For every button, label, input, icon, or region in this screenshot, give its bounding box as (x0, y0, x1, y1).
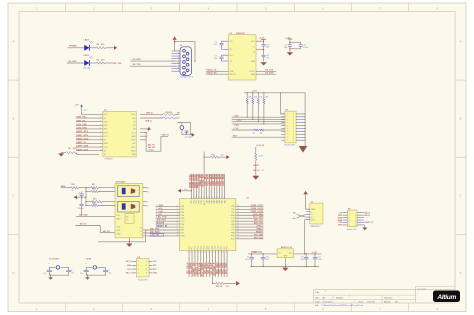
svg-text:VCC: VCC (231, 218, 236, 220)
wire long vertical to reset resistor (204, 152, 205, 174)
svg-text:1: 1 (287, 125, 288, 127)
svg-text:4: 4 (349, 220, 350, 222)
svg-text:20: 20 (71, 190, 73, 192)
svg-text:7: 7 (100, 135, 101, 137)
svg-text:VCC: VCC (181, 221, 186, 223)
svg-text:R7: R7 (253, 133, 255, 135)
svg-text:LED_TXD: LED_TXD (157, 217, 167, 219)
resistor R4 (66, 147, 77, 154)
capacitor C10 (261, 253, 269, 266)
svg-text:T1IN: T1IN (229, 71, 234, 73)
capacitor C8 (78, 197, 85, 210)
svg-text:11: 11 (100, 149, 102, 151)
svg-text:CH340G: CH340G (105, 158, 113, 160)
wire power gnd rail (251, 266, 319, 267)
svg-text:AMS1117-3.3: AMS1117-3.3 (281, 246, 292, 249)
svg-text:DTR: DTR (104, 132, 108, 134)
wire RP3 to bus row3 (258, 104, 259, 122)
net label RXLED (68, 61, 76, 63)
svg-text:2014/12/25: 2014/12/25 (322, 301, 333, 303)
svg-text:30: 30 (237, 220, 239, 222)
wire row1 into U4 with R10 R11 (61, 184, 115, 192)
svg-text:22p: 22p (43, 273, 46, 275)
svg-text:I_SDA: I_SDA (233, 114, 240, 117)
wire net UD- with R6 (140, 118, 163, 123)
title block revision info column (417, 289, 426, 300)
ground power supply (282, 268, 288, 271)
svg-text:USB_D-: USB_D- (145, 121, 152, 123)
svg-text:PC5: PC5 (203, 246, 205, 250)
svg-text:5: 5 (138, 269, 139, 271)
power port +3.3V at U1 (259, 37, 266, 42)
svg-text:+3.3V_M: +3.3V_M (256, 145, 264, 147)
svg-text:3232_RXD: 3232_RXD (76, 128, 87, 130)
LED D2 (84, 39, 93, 50)
svg-text:28: 28 (227, 251, 229, 253)
svg-text:22p: 22p (108, 273, 111, 275)
svg-text:NC2: NC2 (132, 147, 136, 149)
svg-text:1: 1 (287, 134, 288, 136)
svg-text:XT2: XT2 (231, 227, 234, 229)
svg-text:GND: GND (127, 265, 132, 267)
svg-text:R12: R12 (92, 189, 95, 191)
svg-text:VCC: VCC (84, 110, 89, 112)
resistor RP4 (263, 92, 269, 104)
connector J1 USB body (310, 201, 323, 228)
svg-text:USB MICRO: USB MICRO (310, 226, 321, 228)
svg-text:1: 1 (287, 128, 288, 130)
svg-text:UD+: UD+ (292, 218, 296, 220)
MCU right pin wires with labels (236, 205, 264, 240)
svg-text:485A: 485A (61, 185, 66, 188)
svg-text:XT 12M: XT 12M (185, 137, 192, 139)
svg-text:U4 ISO485: U4 ISO485 (116, 181, 127, 184)
svg-text:22: 22 (209, 251, 211, 253)
svg-text:27: 27 (224, 251, 226, 253)
svg-text:PDC: PDC (231, 239, 236, 241)
module inner converter box (125, 213, 134, 223)
wire module bottom ground run (98, 229, 146, 242)
svg-text:5: 5 (177, 217, 178, 219)
svg-text:R1OUT: R1OUT (229, 74, 236, 76)
svg-text:PE3: PE3 (181, 215, 185, 217)
svg-text:UD-: UD- (293, 212, 297, 214)
svg-text:8: 8 (100, 139, 101, 141)
svg-text:*: * (349, 296, 350, 299)
wire row3 into U4 with R13 (85, 199, 115, 206)
power arrow up USB (303, 191, 307, 195)
svg-text:2.2uF: 2.2uF (303, 47, 309, 49)
DB9 pin stubs (172, 50, 181, 72)
power arrow right of R15 (226, 155, 229, 159)
svg-text:2: 2 (177, 208, 178, 210)
svg-text:Number: Number (336, 296, 344, 299)
svg-text:I_SCL: I_SCL (156, 208, 163, 210)
svg-text:I_CLK: I_CLK (233, 128, 240, 130)
ground below module U4 (126, 238, 132, 247)
svg-text:GND: GND (117, 234, 122, 236)
svg-text:104: 104 (266, 259, 269, 261)
svg-text:PC6: PC6 (206, 246, 208, 250)
svg-text:Sheet1: Sheet1 (384, 300, 391, 303)
wire R5 to USBDP (175, 112, 180, 114)
svg-text:CH340: CH340 (148, 150, 154, 152)
capacitor C3 (262, 44, 270, 55)
ground at U1 (260, 62, 266, 65)
svg-text:PF0: PF0 (181, 224, 184, 226)
svg-text:5: 5 (349, 222, 350, 224)
svg-text:R5 1K5: R5 1K5 (165, 112, 171, 114)
svg-text:LED2: LED2 (84, 39, 90, 41)
svg-text:23: 23 (212, 251, 214, 253)
resistor R2 (96, 44, 106, 49)
svg-text:104: 104 (284, 47, 287, 49)
svg-text:21: 21 (206, 251, 208, 253)
wire USB D- D+ crossover (292, 212, 305, 219)
svg-text:R1IN: R1IN (251, 74, 256, 76)
svg-text:RS232_TX: RS232_TX (207, 69, 217, 71)
svg-text:26: 26 (237, 208, 239, 210)
wire bus row5 with series resistors (232, 128, 285, 135)
svg-text:Header 7W: Header 7W (347, 229, 356, 231)
svg-text:VCC: VCC (251, 41, 256, 43)
ground decoupling (287, 52, 293, 55)
svg-text:C: C (460, 194, 462, 198)
svg-text:PWM_OUT1: PWM_OUT1 (251, 205, 264, 207)
power arrow up at DB9 (173, 36, 177, 41)
svg-text:UART_DCD: UART_DCD (76, 137, 88, 140)
wire bus row6 (232, 135, 285, 137)
svg-text:10: 10 (177, 232, 179, 234)
wire U2 VCC hook to +5V (75, 105, 103, 115)
svg-text:1: 1 (287, 137, 288, 139)
svg-text:BOOT0: BOOT0 (157, 223, 165, 225)
svg-text:3232_TXD: 3232_TXD (76, 124, 87, 126)
svg-text:PDI: PDI (153, 265, 156, 267)
U1 left pin stubs (225, 41, 229, 61)
capacitor C5 (284, 45, 292, 51)
regulator U5 AMS1117 (277, 246, 293, 258)
svg-text:29: 29 (237, 217, 239, 219)
svg-text:PE2: PE2 (181, 212, 185, 214)
svg-text:PA6: PA6 (208, 200, 211, 203)
ground arrow below R9 (252, 176, 259, 180)
svg-text:I_INT: I_INT (156, 214, 162, 216)
wire row2 into U4 with R12 (85, 188, 115, 193)
svg-text:36: 36 (237, 237, 239, 239)
wire net RS_TX out (256, 69, 276, 71)
svg-text:*: * (325, 291, 326, 294)
svg-text:2: 2 (146, 261, 147, 263)
svg-text:6: 6 (177, 220, 178, 222)
svg-text:PC4: PC4 (200, 246, 202, 250)
svg-text:1: 1 (287, 131, 288, 133)
svg-text:+3.3V: +3.3V (312, 252, 318, 254)
capacitor C11 (301, 253, 309, 266)
resistor R6 (163, 117, 175, 119)
wire bus row3 (232, 121, 285, 123)
svg-text:11: 11 (177, 235, 179, 237)
svg-text:Header 10X2: Header 10X2 (285, 144, 296, 146)
svg-text:VCC: VCC (104, 114, 109, 116)
svg-text:PA2: PA2 (218, 200, 221, 203)
svg-text:6: 6 (349, 225, 350, 227)
svg-text:Revision: Revision (384, 297, 393, 299)
svg-text:RXD: RXD (104, 125, 109, 127)
wire J1 VBUS to rail (0, 0, 1, 1)
svg-text:DSR: DSR (104, 143, 109, 145)
svg-text:10: 10 (100, 146, 102, 148)
wire R9 down (253, 160, 264, 176)
module U4 body (115, 181, 143, 238)
wire D2 to R2 (89, 47, 96, 49)
wire decoupling bottom node (289, 48, 300, 52)
svg-text:MAX3232: MAX3232 (236, 32, 246, 35)
svg-text:USB_D+: USB_D+ (146, 113, 154, 115)
svg-text:485_RXD: 485_RXD (150, 231, 160, 234)
svg-text:R15: R15 (212, 154, 215, 156)
svg-text:RS_TXD: RS_TXD (265, 69, 273, 71)
svg-text:BOOT: BOOT (254, 165, 260, 167)
svg-text:RS232_RX: RS232_RX (207, 73, 218, 75)
svg-text:PDD: PDD (231, 236, 236, 238)
wire +3.3V rail to P3 pin1 (280, 92, 285, 114)
svg-text:PD5: PD5 (231, 206, 235, 208)
svg-text:PA1: PA1 (221, 200, 224, 203)
svg-text:7: 7 (138, 273, 139, 275)
wire net UD+ with R5 (140, 113, 163, 115)
power arrow left at MCU top (178, 189, 192, 193)
svg-text:AIN_DET: AIN_DET (157, 219, 167, 222)
svg-text:XTAL1: XTAL1 (256, 228, 264, 231)
svg-text:485_RX: 485_RX (148, 146, 156, 149)
capacitor C12 (313, 253, 323, 266)
svg-text:24: 24 (215, 251, 217, 253)
svg-text:485_TXD: 485_TXD (150, 228, 160, 231)
svg-text:R14: R14 (92, 201, 95, 204)
svg-text:485_RX: 485_RX (103, 230, 111, 233)
svg-text:27: 27 (224, 196, 226, 198)
svg-text:34: 34 (237, 232, 239, 234)
svg-text:16: 16 (192, 251, 194, 253)
header P5 body (347, 208, 357, 231)
svg-text:D Connector 9: D Connector 9 (180, 76, 194, 79)
wire U2 V+ arrow (140, 127, 151, 132)
svg-text:*: * (398, 297, 399, 299)
svg-text:PWM_OUT2: PWM_OUT2 (251, 208, 264, 210)
svg-text:C1-: C1- (229, 49, 232, 51)
crystal circuit Y2 8M (80, 259, 111, 280)
wire net 3232_TX (206, 69, 228, 71)
svg-text:RESET: RESET (256, 231, 264, 233)
svg-text:V3: V3 (133, 129, 135, 131)
svg-text:D:\Altium\MainBoard\RS485-con4: D:\Altium\MainBoard\RS485-con485-ver28.s… (322, 304, 364, 307)
svg-text:RX_LED: RX_LED (68, 61, 76, 63)
svg-text:R10: R10 (71, 184, 74, 186)
svg-text:I_INT: I_INT (234, 125, 240, 127)
svg-text:2: 2 (293, 131, 294, 133)
svg-text:USB_VD-: USB_VD- (76, 120, 86, 122)
svg-text:1: 1 (287, 122, 288, 124)
svg-text:XT1: XT1 (231, 230, 234, 232)
svg-text:RS_RXD: RS_RXD (133, 59, 142, 61)
svg-text:26: 26 (221, 251, 223, 253)
svg-text:PD6: PD6 (231, 209, 235, 211)
svg-text:15: 15 (189, 251, 191, 253)
svg-text:UD-: UD- (132, 118, 136, 120)
svg-text:UART_CTS: UART_CTS (76, 148, 88, 151)
svg-text:Y1 32.768K: Y1 32.768K (49, 259, 60, 261)
svg-text:PD1: PD1 (221, 246, 223, 250)
power arrow right of Y3 (191, 133, 195, 137)
svg-text:UART_DTR: UART_DTR (76, 134, 88, 137)
svg-text:1: 1 (349, 212, 350, 214)
wire DB9 loop (174, 41, 196, 62)
svg-text:2: 2 (293, 117, 294, 119)
MCU top pin wires with net labels (189, 174, 226, 199)
svg-text:PDI: PDI (181, 233, 185, 235)
wire net RS_TXD to DB9 (130, 64, 175, 66)
ground at R4 (58, 153, 66, 157)
svg-text:3.3 1 B W: 3.3 1 B W (417, 289, 426, 291)
svg-text:1: 1 (177, 205, 178, 207)
wire RP2 to bus row2 (252, 104, 253, 120)
svg-text:RX LED: RX LED (84, 67, 91, 69)
svg-text:8: 8 (146, 273, 147, 275)
svg-text:R232: R232 (131, 151, 135, 153)
svg-text:UD+: UD+ (132, 114, 136, 116)
svg-text:RS_TXD: RS_TXD (133, 64, 141, 66)
svg-text:GND: GND (251, 61, 256, 63)
svg-text:9: 9 (177, 229, 178, 231)
wire buzzer row (212, 283, 216, 284)
svg-text:File:: File: (315, 305, 319, 307)
svg-text:RS_TXD: RS_TXD (114, 63, 122, 65)
resistor RP2 (252, 92, 258, 104)
svg-text:18: 18 (197, 251, 199, 253)
wire RP1 to bus row1 (247, 104, 248, 118)
IC U2 CH340G body (103, 110, 136, 161)
svg-text:1: 1 (287, 114, 288, 116)
svg-text:8: 8 (177, 226, 178, 228)
wire U1 VCC rail (256, 41, 264, 50)
wire net POWER_LED (68, 47, 85, 49)
P5 right stubs with labels (357, 211, 374, 225)
svg-text:25: 25 (237, 205, 239, 207)
svg-text:19: 19 (200, 251, 202, 253)
svg-text:XTAL2: XTAL2 (256, 225, 264, 228)
svg-text:GND: GND (231, 215, 236, 217)
svg-text:ADC_IN13: ADC_IN13 (225, 262, 228, 274)
ground at P5 (362, 225, 367, 230)
svg-text:2: 2 (100, 117, 101, 119)
svg-text:32: 32 (237, 226, 239, 228)
resistor R16 (216, 282, 231, 288)
svg-text:AVCC: AVCC (203, 199, 206, 205)
resistor RP3 (257, 92, 263, 104)
svg-text:PA3: PA3 (216, 200, 219, 203)
connector J2 DB9 shell (180, 47, 194, 79)
svg-text:A: A (460, 40, 462, 44)
U2 left pin wires and labels (76, 117, 103, 152)
svg-text:T1OUT: T1OUT (249, 71, 256, 73)
P4 right stubs with labels (149, 261, 158, 274)
net label POWER (69, 46, 77, 48)
svg-text:D+: D+ (311, 214, 313, 216)
svg-text:5: 5 (100, 128, 101, 130)
svg-text:D: D (460, 271, 462, 275)
resistor RP1 (246, 92, 252, 104)
svg-text:2: 2 (293, 128, 294, 130)
svg-text:RS_RXD: RS_RXD (265, 73, 274, 75)
svg-text:C: C (13, 194, 15, 198)
wire +5V rail (248, 252, 277, 254)
svg-text:4.7K: 4.7K (73, 147, 78, 150)
svg-text:33: 33 (237, 229, 239, 231)
svg-text:UART_RI: UART_RI (76, 141, 86, 144)
wire R6 to crystal loop (175, 117, 179, 119)
svg-text:UART_RTS: UART_RTS (76, 130, 88, 133)
title block frame (314, 287, 456, 303)
svg-text:PDI_D: PDI_D (126, 261, 132, 263)
svg-text:2: 2 (293, 114, 294, 116)
capacitor C7 (78, 192, 84, 198)
svg-text:PD0: PD0 (218, 246, 220, 250)
wire +3.3V rail out (294, 252, 322, 254)
capacitor C6 (299, 45, 309, 49)
title block texts (315, 291, 399, 307)
svg-text:2: 2 (293, 122, 294, 124)
svg-text:2: 2 (349, 215, 350, 217)
svg-text:104: 104 (266, 47, 269, 49)
ground bus arrow P3 (299, 146, 308, 153)
svg-text:104: 104 (214, 44, 217, 46)
svg-text:LED3: LED3 (84, 55, 90, 57)
capacitor C4 (262, 55, 270, 61)
svg-text:B: B (460, 117, 462, 121)
svg-text:PC1: PC1 (192, 246, 194, 250)
svg-text:Altium: Altium (436, 294, 456, 301)
P3 right pin stubs to ground bus (296, 93, 306, 146)
svg-text:USB_VD+: USB_VD+ (76, 117, 87, 119)
wire D3 to R3 (89, 62, 96, 64)
svg-text:4: 4 (100, 124, 101, 126)
svg-text:Header PDI: Header PDI (138, 279, 148, 281)
svg-text:2: 2 (293, 134, 294, 136)
svg-text:GND: GND (153, 273, 158, 275)
svg-text:GND: GND (131, 136, 136, 138)
svg-text:17: 17 (195, 251, 197, 253)
power arrow right of R16 (225, 281, 240, 286)
svg-text:Y2 8M: Y2 8M (86, 259, 92, 261)
svg-text:PE4: PE4 (231, 221, 235, 223)
svg-text:485_TX: 485_TX (80, 223, 87, 226)
svg-text:A: A (13, 40, 15, 44)
resistor R5 (163, 112, 175, 116)
svg-text:GND: GND (181, 218, 186, 220)
svg-text:PA7: PA7 (205, 200, 208, 203)
net labels U2 right lower (148, 143, 156, 151)
svg-text:PDI_C: PDI_C (126, 273, 132, 275)
svg-text:22p: 22p (71, 273, 74, 275)
op-amp U1 MAX3232 body (228, 32, 256, 80)
svg-text:I_CLK: I_CLK (156, 211, 163, 213)
crystal circuit Y1 32.768K (43, 259, 74, 280)
svg-text:PE1: PE1 (181, 209, 185, 211)
capacitor C2 (214, 55, 225, 61)
svg-text:UART_DSR: UART_DSR (76, 145, 88, 148)
crystal Y3 circuit (178, 123, 192, 139)
